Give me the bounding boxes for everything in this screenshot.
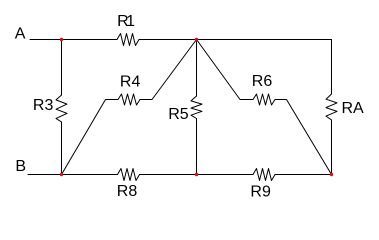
svg-text:A: A bbox=[15, 26, 26, 43]
wire diagonal: R4 up to top middle node bbox=[140, 40, 197, 100]
resistor R5 bbox=[191, 96, 202, 119]
svg-text:R4: R4 bbox=[120, 74, 141, 91]
wire bottom: B terminal to R8 bbox=[28, 174, 118, 176]
svg-text:R9: R9 bbox=[250, 183, 271, 200]
node A junction dot bbox=[60, 38, 63, 41]
node top-middle junction dot bbox=[195, 38, 198, 41]
resistor RA bbox=[326, 94, 337, 120]
wire middle vertical: R5 to bottom node bbox=[196, 119, 198, 175]
svg-text:R6: R6 bbox=[252, 73, 273, 90]
wire left vertical: node A to R3 bbox=[61, 40, 63, 96]
wire top: R1 to top-right corner bbox=[139, 39, 332, 41]
resistor R9 bbox=[253, 169, 275, 181]
node bottom-middle junction dot bbox=[195, 173, 198, 176]
resistor R8 bbox=[118, 169, 140, 181]
wire bottom: R8 to R9 bbox=[140, 174, 254, 176]
svg-text:B: B bbox=[15, 158, 26, 175]
resistor R4 bbox=[118, 94, 140, 105]
wire diagonal: top middle node down to R6 bbox=[197, 40, 254, 100]
wire diagonal: node B up to R4 bbox=[62, 100, 119, 175]
svg-text:R8: R8 bbox=[117, 183, 138, 200]
resistor R3 bbox=[56, 95, 67, 122]
svg-text:R1: R1 bbox=[117, 13, 135, 30]
wire bottom: R9 to bottom-right node bbox=[275, 174, 332, 176]
resistor R1 bbox=[117, 34, 139, 46]
node B junction dot bbox=[60, 173, 63, 176]
wire left vertical: R3 to node B bbox=[61, 122, 63, 175]
wire middle vertical: top node to R5 bbox=[196, 40, 198, 97]
wire diagonal: R6 down to bottom-right node bbox=[275, 100, 332, 175]
svg-text:R5: R5 bbox=[168, 106, 189, 123]
wire top: A terminal to R1 bbox=[30, 39, 117, 41]
node bottom-right junction dot bbox=[330, 173, 333, 176]
resistor R6 bbox=[253, 94, 275, 105]
wire right vertical: corner to RA bbox=[331, 40, 333, 95]
svg-text:RA: RA bbox=[342, 100, 365, 117]
wire right vertical: RA to bottom-right node bbox=[331, 120, 333, 175]
svg-text:R3: R3 bbox=[33, 97, 54, 114]
